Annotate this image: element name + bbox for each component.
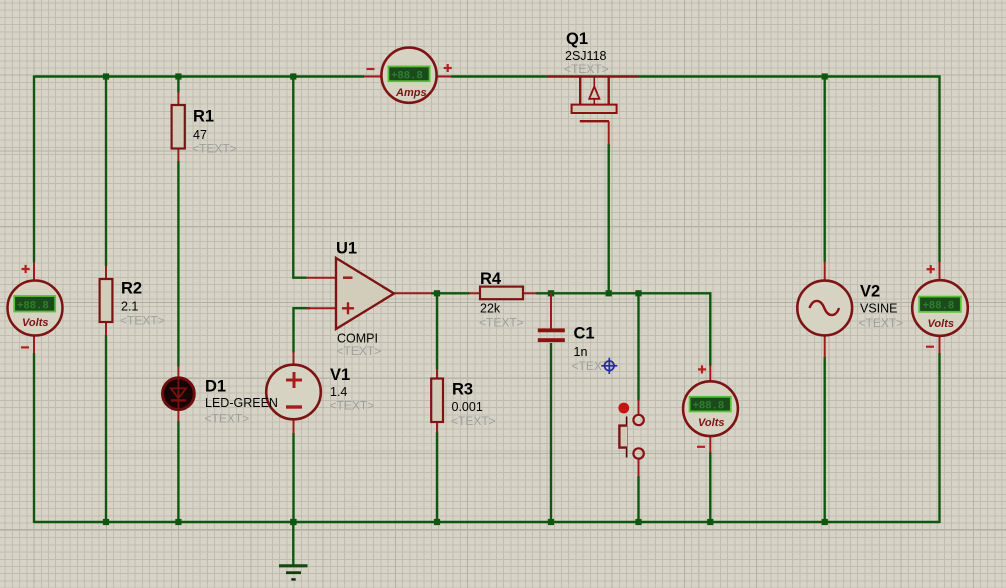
svg-text:+88.8: +88.8 xyxy=(17,300,49,312)
svg-text:<TEXT>: <TEXT> xyxy=(330,399,375,413)
svg-text:0.001: 0.001 xyxy=(452,400,483,414)
wire left rail lower xyxy=(33,353,35,523)
ground xyxy=(279,522,308,579)
wire D1 to bus xyxy=(177,421,179,522)
wire opamp plus branch from V1 xyxy=(294,308,311,352)
node bus R3 junction xyxy=(434,519,440,525)
wire switch to bus xyxy=(637,476,639,522)
wire top rail left segment xyxy=(34,75,364,77)
svg-text:C1: C1 xyxy=(574,325,595,343)
wire right rail lower xyxy=(938,353,940,523)
voltmeter middle xyxy=(683,365,738,452)
node bus meter3 junction xyxy=(707,519,713,525)
svg-text:R2: R2 xyxy=(121,280,142,298)
resistor R3 xyxy=(431,369,443,433)
ammeter (Amps meter) xyxy=(364,48,452,103)
origin marker (blue crosshair) xyxy=(601,358,617,374)
LED D1 labels xyxy=(205,378,278,426)
wire R4 to volts meter corner xyxy=(536,293,710,366)
transistor Q1 xyxy=(547,77,639,145)
node output gate junction xyxy=(606,290,612,296)
svg-text:2.1: 2.1 xyxy=(121,300,138,314)
transistor Q1 labels xyxy=(564,30,609,76)
sine source V2 xyxy=(797,262,852,358)
svg-text:<TEXT>: <TEXT> xyxy=(205,411,250,425)
node top rail V2 junction xyxy=(822,73,828,79)
node top rail R2 junction xyxy=(103,73,109,79)
svg-text:<TEXT>: <TEXT> xyxy=(564,62,609,76)
svg-text:Volts: Volts xyxy=(698,417,725,429)
op-amp U1 labels xyxy=(336,239,381,358)
op-amp U1 xyxy=(306,258,432,329)
pushbutton switch xyxy=(618,400,643,477)
resistor R2 xyxy=(100,266,113,336)
svg-text:+88.8: +88.8 xyxy=(693,401,725,413)
svg-text:<TEXT>: <TEXT> xyxy=(192,142,237,156)
battery V1 labels xyxy=(330,366,375,413)
svg-text:1n: 1n xyxy=(574,345,588,359)
svg-text:Q1: Q1 xyxy=(566,30,588,48)
node top rail opamp junction xyxy=(290,73,296,79)
wire R1 to D1 xyxy=(177,161,179,367)
wire left rail upper xyxy=(33,76,35,263)
svg-text:V2: V2 xyxy=(860,283,880,301)
svg-text:VSINE: VSINE xyxy=(860,302,898,316)
svg-text:<TEXT>: <TEXT> xyxy=(120,313,165,327)
wire R2 branch upper xyxy=(105,77,107,267)
wire top rail middle segment xyxy=(451,75,547,77)
svg-text:+88.8: +88.8 xyxy=(391,70,423,82)
resistor R1 xyxy=(172,92,185,162)
svg-text:V1: V1 xyxy=(330,366,350,384)
wire R3 to bus xyxy=(436,432,438,522)
resistor R4 xyxy=(469,287,537,300)
svg-text:U1: U1 xyxy=(336,239,357,257)
wire R3 branch upper xyxy=(436,293,438,369)
svg-text:R4: R4 xyxy=(480,270,502,288)
svg-text:<TEXT>: <TEXT> xyxy=(451,414,496,428)
node bus D1 junction xyxy=(175,519,181,525)
svg-text:<TEXT>: <TEXT> xyxy=(859,316,904,330)
resistor R2 labels xyxy=(120,280,165,328)
svg-text:R1: R1 xyxy=(193,108,214,126)
wire switch branch upper xyxy=(637,293,639,400)
svg-text:Amps: Amps xyxy=(395,87,427,99)
node bus C1 junction xyxy=(548,519,554,525)
capacitor C1 xyxy=(538,293,565,343)
svg-text:<TEXT>: <TEXT> xyxy=(337,344,382,358)
svg-text:Volts: Volts xyxy=(928,318,955,330)
svg-text:47: 47 xyxy=(193,128,207,142)
wire V1 to bus xyxy=(292,433,294,522)
wire V2 branch upper xyxy=(824,77,826,263)
svg-text:LED-GREEN: LED-GREEN xyxy=(205,396,278,410)
svg-text:R3: R3 xyxy=(452,381,473,399)
voltmeter left xyxy=(8,262,63,354)
node bus switch junction xyxy=(635,519,641,525)
wire top rail right segment xyxy=(639,75,941,77)
battery V1 xyxy=(266,352,321,434)
node bus V2 junction xyxy=(822,519,828,525)
svg-text:+88.8: +88.8 xyxy=(923,301,955,313)
wire opamp minus branch xyxy=(293,77,306,278)
node output R3 junction xyxy=(434,290,440,296)
svg-text:Volts: Volts xyxy=(22,317,49,329)
wire R1 branch upper xyxy=(177,77,179,93)
sine source V2 labels xyxy=(859,283,904,330)
node output C1 junction xyxy=(548,290,554,296)
wire right rail upper xyxy=(938,76,940,263)
resistor R1 labels xyxy=(192,108,237,156)
wire bottom bus xyxy=(34,521,940,523)
capacitor C1 labels xyxy=(572,325,617,374)
node bus R2 junction xyxy=(103,519,109,525)
resistor R3 labels xyxy=(451,381,496,429)
voltmeter right xyxy=(912,262,968,354)
svg-text:D1: D1 xyxy=(205,378,226,396)
svg-text:22k: 22k xyxy=(480,302,501,316)
wire Q1 gate down xyxy=(608,144,610,294)
resistor R4 labels xyxy=(479,270,524,329)
wire C1 to bus xyxy=(550,343,552,522)
node output switch junction xyxy=(635,290,641,296)
LED D1 xyxy=(163,366,195,422)
wire V2 to bus xyxy=(824,357,826,522)
node top rail R1 junction xyxy=(175,73,181,79)
svg-text:1.4: 1.4 xyxy=(330,385,347,399)
node bus ground junction xyxy=(290,519,296,525)
node bus V1 junction xyxy=(290,519,296,525)
wire R2 branch lower xyxy=(105,335,107,522)
wire meter3 to bus xyxy=(709,452,711,522)
svg-text:<TEXT>: <TEXT> xyxy=(479,315,524,329)
wire opamp output to R4 xyxy=(431,292,470,294)
